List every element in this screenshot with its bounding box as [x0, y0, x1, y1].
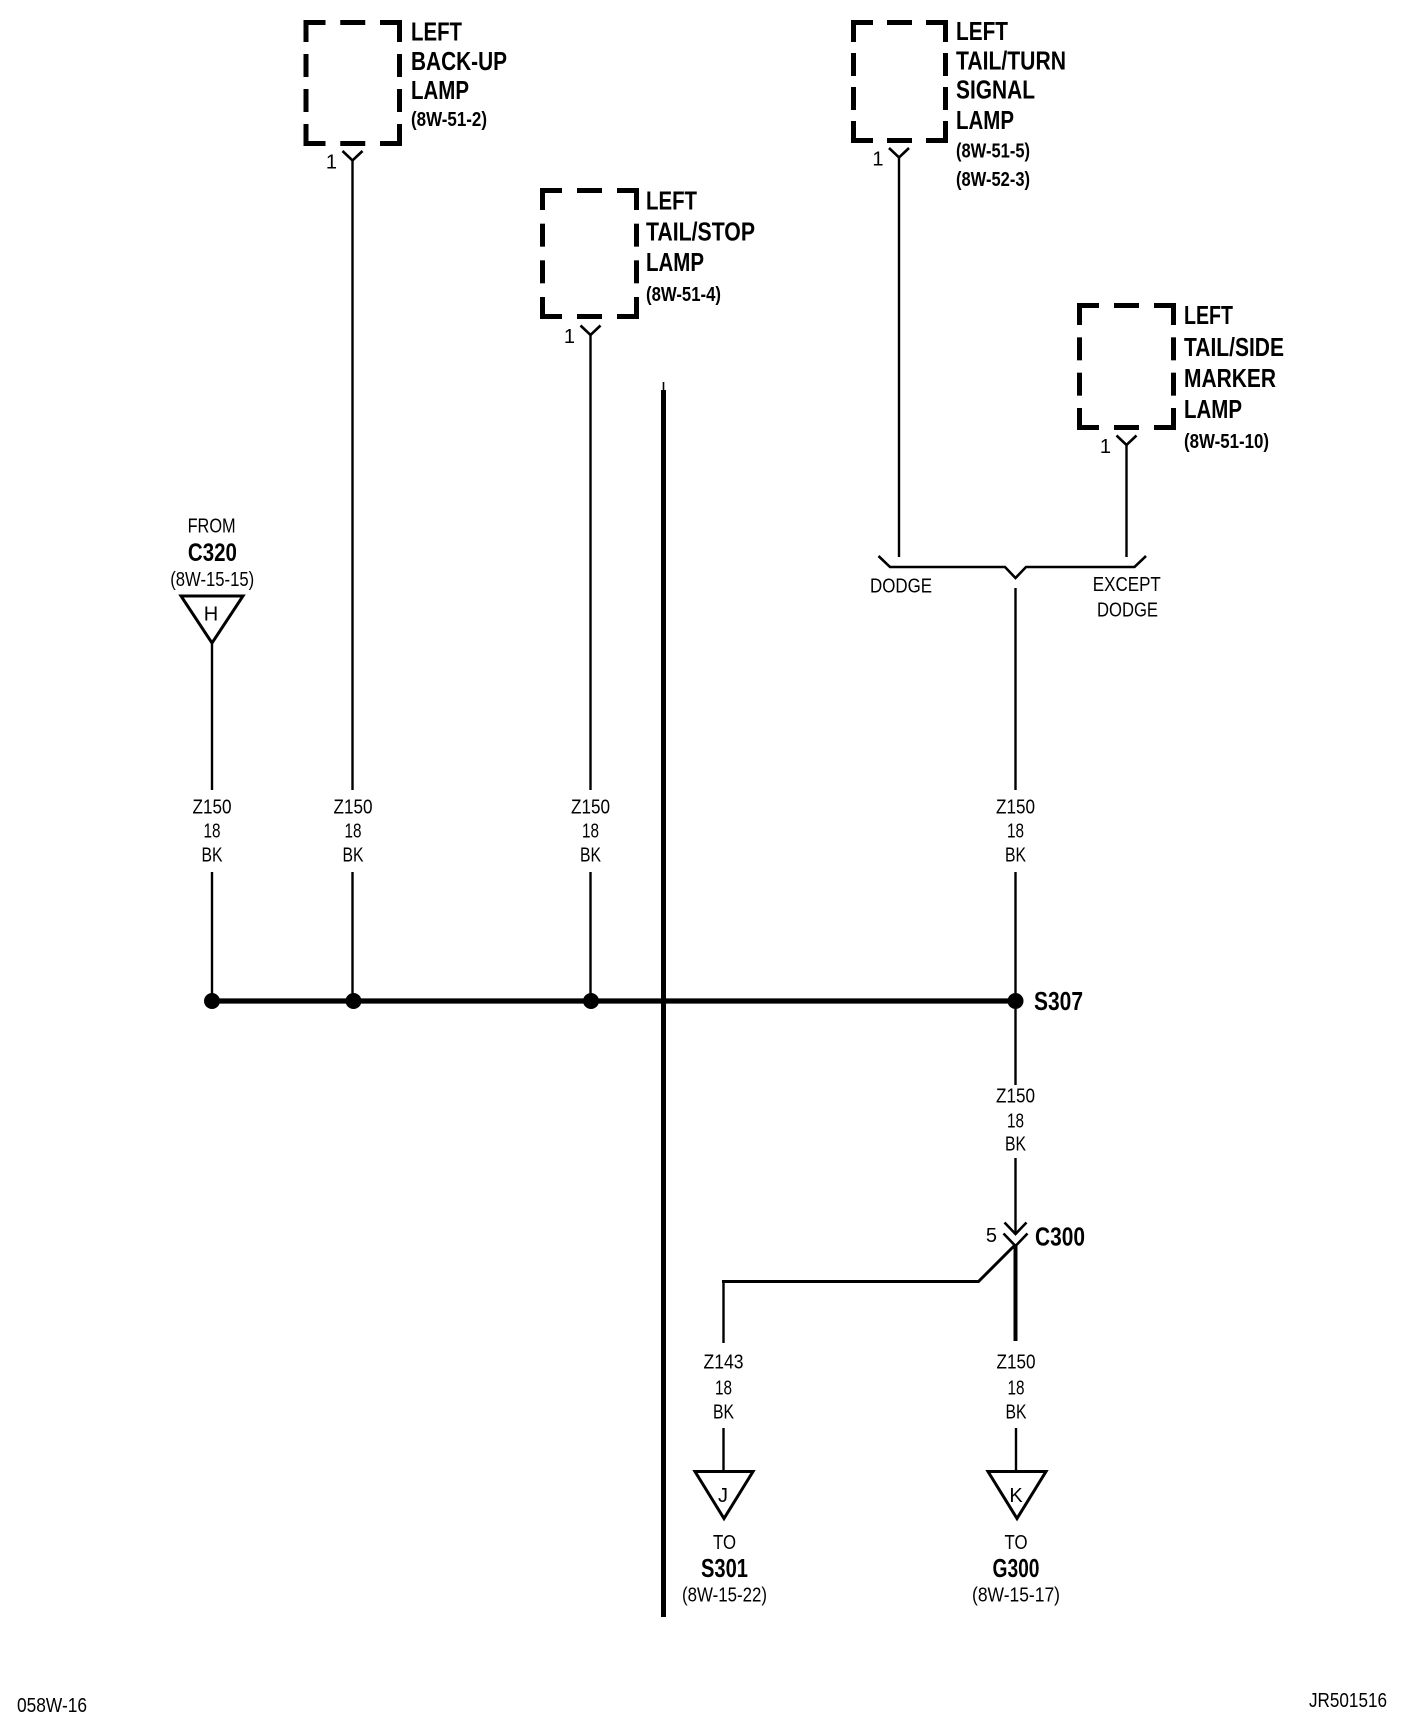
svg-text:Z143: Z143	[704, 1352, 744, 1374]
svg-text:18: 18	[345, 821, 362, 843]
svg-text:Z150: Z150	[996, 1086, 1035, 1108]
svg-text:JR501516: JR501516	[1309, 1690, 1387, 1712]
svg-text:18: 18	[1008, 1378, 1025, 1400]
svg-text:18: 18	[582, 821, 599, 843]
svg-text:TAIL/SIDE: TAIL/SIDE	[1184, 332, 1284, 362]
svg-text:Z150: Z150	[997, 1352, 1036, 1374]
svg-text:Z150: Z150	[334, 797, 373, 819]
svg-text:DODGE: DODGE	[1097, 600, 1158, 622]
svg-text:BK: BK	[1005, 845, 1027, 867]
svg-text:BK: BK	[713, 1402, 735, 1424]
svg-text:TO: TO	[713, 1532, 736, 1554]
svg-text:(8W-51-2): (8W-51-2)	[411, 109, 487, 131]
svg-text:1: 1	[564, 326, 575, 348]
svg-text:G300: G300	[993, 1553, 1040, 1583]
svg-text:Z150: Z150	[996, 797, 1035, 819]
svg-text:BK: BK	[1005, 1134, 1027, 1156]
svg-text:BACK-UP: BACK-UP	[411, 46, 507, 76]
svg-text:18: 18	[1007, 821, 1024, 843]
svg-text:EXCEPT: EXCEPT	[1093, 574, 1161, 596]
svg-text:(8W-15-22): (8W-15-22)	[682, 1585, 767, 1607]
svg-text:MARKER: MARKER	[1184, 363, 1276, 393]
svg-text:LEFT: LEFT	[1184, 300, 1233, 330]
svg-text:BK: BK	[343, 845, 365, 867]
svg-text:C300: C300	[1035, 1222, 1085, 1252]
svg-text:LAMP: LAMP	[411, 75, 469, 105]
svg-text:1: 1	[1100, 436, 1111, 458]
svg-text:(8W-51-5): (8W-51-5)	[956, 141, 1030, 163]
svg-text:S307: S307	[1034, 986, 1083, 1016]
svg-text:DODGE: DODGE	[870, 576, 932, 598]
svg-text:K: K	[1009, 1485, 1023, 1507]
svg-text:(8W-51-4): (8W-51-4)	[646, 284, 721, 306]
svg-text:SIGNAL: SIGNAL	[956, 75, 1035, 105]
svg-text:J: J	[718, 1485, 728, 1507]
svg-text:LEFT: LEFT	[956, 16, 1008, 46]
svg-text:LAMP: LAMP	[1184, 394, 1242, 424]
svg-text:18: 18	[715, 1378, 732, 1400]
svg-text:BK: BK	[580, 845, 602, 867]
svg-text:Z150: Z150	[571, 797, 610, 819]
svg-text:H: H	[204, 604, 218, 626]
svg-text:18: 18	[204, 821, 221, 843]
svg-text:S301: S301	[701, 1553, 748, 1583]
svg-text:TAIL/TURN: TAIL/TURN	[956, 45, 1066, 75]
svg-text:FROM: FROM	[188, 515, 236, 537]
svg-text:18: 18	[1007, 1111, 1024, 1133]
svg-text:LEFT: LEFT	[646, 186, 697, 216]
svg-text:LAMP: LAMP	[646, 247, 704, 277]
svg-text:(8W-52-3): (8W-52-3)	[956, 169, 1030, 191]
svg-text:(8W-15-15): (8W-15-15)	[170, 569, 254, 591]
svg-text:058W-16: 058W-16	[17, 1695, 87, 1717]
svg-text:BK: BK	[1006, 1402, 1028, 1424]
svg-text:LEFT: LEFT	[411, 17, 462, 47]
svg-text:1: 1	[872, 149, 883, 171]
svg-text:TO: TO	[1005, 1532, 1028, 1554]
svg-text:LAMP: LAMP	[956, 105, 1014, 135]
svg-text:1: 1	[326, 152, 337, 174]
svg-text:C320: C320	[188, 539, 237, 567]
svg-text:(8W-51-10): (8W-51-10)	[1184, 431, 1269, 453]
svg-text:(8W-15-17): (8W-15-17)	[972, 1585, 1060, 1607]
svg-text:Z150: Z150	[193, 797, 232, 819]
svg-text:5: 5	[986, 1225, 997, 1247]
svg-text:BK: BK	[202, 845, 224, 867]
svg-text:TAIL/STOP: TAIL/STOP	[646, 217, 755, 247]
